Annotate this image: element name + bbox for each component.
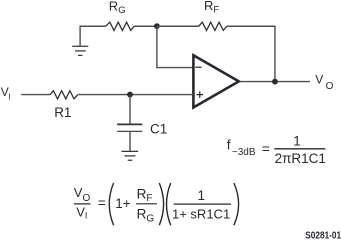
- wire C1 to ground: [129, 132, 131, 151]
- svg-text:1+ sR1C1: 1+ sR1C1: [172, 206, 230, 221]
- ground GND2: [122, 151, 139, 160]
- wire VI to R1: [21, 94, 50, 96]
- svg-text:C1: C1: [150, 121, 167, 136]
- node B output junction dot: [272, 79, 278, 85]
- svg-text:f: f: [227, 137, 231, 152]
- op-amp minus pin mark: [195, 66, 201, 68]
- formula VO/VI gain: [74, 183, 239, 225]
- wire node C to C1: [129, 95, 131, 124]
- resistor RG: [106, 22, 134, 30]
- node A junction dot: [154, 23, 160, 29]
- wire RF to output node: [227, 26, 275, 81]
- svg-text:1: 1: [293, 134, 301, 149]
- op-amp U1: [193, 55, 238, 107]
- svg-text:=: =: [262, 141, 270, 156]
- wire RG to node A: [134, 25, 157, 27]
- resistor R1: [50, 91, 78, 99]
- svg-text:2πR1C1: 2πR1C1: [275, 151, 326, 166]
- svg-text:S0281-01: S0281-01: [305, 229, 341, 239]
- op-amp plus pin mark: [197, 91, 203, 98]
- wire R1 to noninverting input: [78, 94, 193, 96]
- svg-text:−3dB: −3dB: [232, 147, 256, 158]
- svg-text:1+: 1+: [115, 196, 131, 211]
- wire node A to RF: [157, 25, 199, 27]
- wire inverting input: [157, 27, 193, 68]
- svg-text:=: =: [98, 196, 106, 211]
- wire output: [240, 81, 310, 83]
- svg-text:1: 1: [198, 188, 206, 203]
- ground GND1: [72, 46, 88, 55]
- wire RG ground corner: [80, 26, 106, 46]
- node C junction dot: [127, 92, 133, 98]
- formula f-3dB = 1/(2piR1C1): [227, 134, 326, 166]
- capacitor C1: [117, 123, 142, 125]
- svg-text:R1: R1: [54, 105, 71, 120]
- resistor RF: [199, 22, 227, 30]
